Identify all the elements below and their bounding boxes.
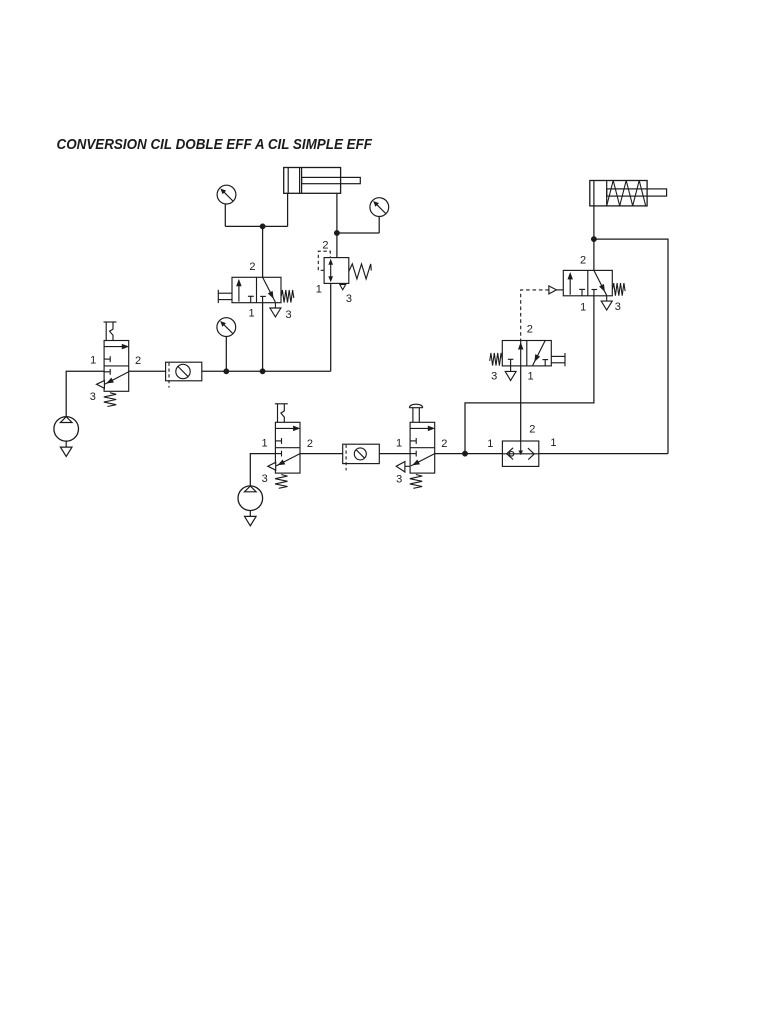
valve V4 exhaust T stem <box>508 359 514 371</box>
label V1 port 2 <box>135 355 141 367</box>
node j1 <box>260 224 265 229</box>
valve V6 flow arrow <box>410 426 434 431</box>
svg-text:2: 2 <box>527 324 533 336</box>
svg-text:CONVERSION CIL DOBLE EFF A CIL: CONVERSION CIL DOBLE EFF A CIL SIMPLE EF… <box>57 136 373 153</box>
valve V2 flow arrow <box>237 280 242 302</box>
wire j6 right and down <box>594 239 668 454</box>
label V4 port 1 <box>528 371 534 383</box>
wire gauge Z2 horizontal <box>337 232 379 234</box>
label U1 port 2 <box>322 239 328 251</box>
valve V6 blocked port T top <box>410 438 416 444</box>
valve V5 blocked port T <box>579 289 585 295</box>
svg-text:2: 2 <box>135 355 141 367</box>
valve V1 diagonal 2-3 <box>105 372 129 384</box>
throttle valve D1 <box>166 362 202 387</box>
label V5 port 1 <box>580 301 586 313</box>
valve V4 blocked port T <box>543 360 549 366</box>
wire gauge Z1 stem <box>224 204 226 226</box>
valve V3 blocked port T bottom <box>275 451 281 457</box>
valve V3 spring <box>275 475 287 489</box>
label S1 port 2 <box>529 423 535 435</box>
wire gauge Z2 stem <box>378 217 380 233</box>
valve V6 body <box>410 422 435 473</box>
svg-text:1: 1 <box>248 307 254 319</box>
wire V3 port2 to throttle D2 <box>300 453 343 455</box>
wire D2 to valve V6 <box>379 453 410 455</box>
valve V2 body <box>232 277 281 302</box>
valve V4 body <box>502 341 551 366</box>
svg-text:2: 2 <box>580 255 586 267</box>
valve V2 port 1 stem <box>260 296 266 302</box>
pressure gauge Z2 <box>370 198 389 217</box>
label V2 port 2 <box>249 261 255 273</box>
valve V3 plunger actuator <box>275 404 288 423</box>
label V5 port 3 <box>615 301 621 313</box>
valve V6 blocked port T bottom <box>410 451 416 457</box>
svg-text:1: 1 <box>528 371 534 383</box>
label V3 port 2 <box>307 438 313 450</box>
valve V4 spring <box>490 353 503 366</box>
valve V1 plunger actuator <box>104 322 117 341</box>
valve V2 push actuator <box>218 290 232 303</box>
svg-text:2: 2 <box>441 438 447 450</box>
valve V5 pilot arrow <box>549 286 563 294</box>
regulator U1 spring <box>349 264 371 279</box>
valve V1 exhaust 3 <box>97 381 105 389</box>
svg-text:3: 3 <box>396 473 402 485</box>
wire U1 outlet down <box>330 283 332 371</box>
label U1 port 3 <box>346 293 352 305</box>
valve V6 exhaust stub <box>405 465 410 467</box>
valve V4 flow line <box>518 341 523 366</box>
pilot dashed line <box>521 290 549 341</box>
valve V5 port 1 stem <box>592 290 598 296</box>
svg-text:3: 3 <box>615 301 621 313</box>
svg-text:1: 1 <box>550 437 556 449</box>
svg-text:1: 1 <box>316 284 322 296</box>
valve V1 blocked port T top <box>104 356 110 362</box>
label V4 port 3 <box>491 370 497 382</box>
wire A2 port down <box>593 206 595 239</box>
svg-text:3: 3 <box>286 309 292 321</box>
wire V3 port1 left <box>250 454 275 486</box>
valve V5 spring <box>613 283 626 296</box>
wire j1 down to valve V2 <box>262 226 264 277</box>
label V6 port 2 <box>441 438 447 450</box>
valve V6 exhaust 3 <box>396 462 405 472</box>
label S1 port 1 left <box>487 438 493 450</box>
label V1 port 3 <box>90 391 96 403</box>
valve V6 spring <box>410 475 422 489</box>
pressure gauge Z1 <box>217 185 236 204</box>
node j6 <box>591 236 596 241</box>
regulator U1 pilot dashed line <box>318 251 330 270</box>
valve V4 exhaust 3 <box>505 371 516 380</box>
svg-text:2: 2 <box>322 239 328 251</box>
cylinder A1 (double-acting) <box>284 168 361 194</box>
wire V1 port1 left <box>66 371 104 417</box>
node j2 <box>334 230 339 235</box>
valve V1 flow arrow <box>104 344 128 349</box>
valve V2 diagonal 2-3 <box>263 277 276 302</box>
node j4 <box>260 369 265 374</box>
label V1 port 1 <box>90 355 96 367</box>
svg-text:1: 1 <box>580 301 586 313</box>
wire V4 port1 down to shuttle <box>520 366 522 441</box>
node j5 <box>462 451 467 456</box>
regulator U1 exhaust triangle <box>340 285 346 290</box>
svg-text:1: 1 <box>396 437 402 449</box>
wire mid manifold <box>202 370 331 372</box>
pressure regulator U1 body <box>324 258 349 284</box>
valve V5 diagonal 2-3 <box>594 270 607 295</box>
valve V2 blocked port T <box>248 296 254 302</box>
valve V3 exhaust 3 <box>268 462 276 470</box>
svg-text:3: 3 <box>346 293 352 305</box>
wire V2 port1 down <box>262 303 264 372</box>
label U1 port 1 <box>316 284 322 296</box>
label V2 port 3 <box>286 309 292 321</box>
label V2 port 1 <box>248 307 254 319</box>
wire gauge Z3 stem <box>225 337 227 372</box>
air source Q2 <box>238 486 263 526</box>
label V3 port 1 <box>261 437 267 449</box>
valve V1 blocked port T bottom <box>104 369 110 375</box>
node j3 <box>224 369 229 374</box>
wire A1 right port down <box>336 193 338 257</box>
valve V2 spring <box>281 290 294 303</box>
valve V6 mushroom actuator <box>409 404 422 422</box>
throttle valve D2 <box>343 444 380 470</box>
valve V5 body <box>563 270 612 295</box>
valve V5 exhaust 3 <box>601 296 612 310</box>
shuttle valve S1 <box>502 441 538 466</box>
pressure gauge Z3 <box>217 318 236 337</box>
title text <box>57 136 373 153</box>
label V5 port 2 <box>580 255 586 267</box>
wire upper-left horizontal <box>225 225 287 227</box>
svg-text:3: 3 <box>90 391 96 403</box>
svg-text:1: 1 <box>90 355 96 367</box>
wire j6 down to valve V5 <box>593 239 595 270</box>
valve V4 diagonal <box>533 341 546 366</box>
valve V5 flow arrow <box>568 273 573 295</box>
valve V3 flow arrow <box>275 426 299 431</box>
svg-text:3: 3 <box>262 473 268 485</box>
svg-text:3: 3 <box>491 370 497 382</box>
svg-text:1: 1 <box>487 438 493 450</box>
svg-text:2: 2 <box>529 423 535 435</box>
valve V1 body <box>104 341 129 392</box>
air source Q1 <box>54 417 79 457</box>
valve V3 blocked port T top <box>275 438 281 444</box>
wire shuttle right <box>539 453 668 455</box>
wire V1 port2 to throttle D1 <box>129 370 166 372</box>
valve V1 spring <box>104 393 116 407</box>
label V6 port 3 <box>396 473 402 485</box>
label S1 port 1 right <box>550 437 556 449</box>
label V3 port 3 <box>262 473 268 485</box>
valve V3 body <box>275 422 300 473</box>
svg-text:1: 1 <box>261 437 267 449</box>
svg-text:2: 2 <box>307 438 313 450</box>
cylinder A2 (single-acting, spring return) <box>590 181 667 206</box>
svg-text:2: 2 <box>249 261 255 273</box>
valve V4 push actuator <box>551 353 565 366</box>
valve V2 exhaust 3 <box>270 303 281 317</box>
wire V6 port2 to shuttle <box>435 453 503 455</box>
wire A1 left port down <box>287 193 289 226</box>
valve V6 diagonal 2-3 <box>411 454 435 466</box>
label V6 port 1 <box>396 437 402 449</box>
valve V3 diagonal 2-3 <box>276 454 300 466</box>
wire j5 up and right <box>465 296 594 454</box>
label V4 port 2 <box>527 324 533 336</box>
